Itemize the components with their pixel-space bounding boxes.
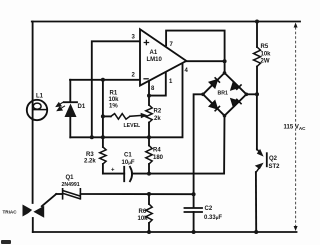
bridge diode bottom-right	[231, 99, 239, 107]
wire left vertical (lamp branch)	[32, 22, 34, 204]
wire bottom rail	[33, 231, 297, 233]
svg-text:R5: R5	[261, 44, 269, 50]
svg-text:8: 8	[151, 86, 155, 92]
resistor R1 (level pot)	[103, 115, 111, 117]
115 VAC dimension line	[295, 27, 297, 227]
D1 light arrows	[56, 102, 65, 111]
capacitor C1	[123, 167, 125, 181]
Q2 arrowheads	[257, 149, 264, 157]
resistor R3	[100, 147, 106, 164]
svg-text:L1: L1	[36, 94, 44, 100]
svg-text:2: 2	[132, 73, 136, 79]
bridge diode top-right	[231, 82, 239, 90]
wire triac to bottom rail	[32, 218, 34, 232]
bridge BR1 outline	[203, 73, 246, 116]
svg-text:A1: A1	[150, 50, 158, 56]
svg-text:1: 1	[169, 79, 173, 85]
svg-text:ST2: ST2	[269, 164, 281, 170]
svg-text:2k: 2k	[154, 116, 161, 122]
bridge diode bottom-left	[210, 101, 218, 109]
resistor R2	[148, 81, 150, 105]
svg-text:C1: C1	[124, 153, 132, 159]
wire output to node	[186, 60, 224, 62]
wire bridge right to R5/Q2 column	[246, 93, 257, 95]
capacitor C2	[185, 207, 203, 209]
resistor R5	[256, 22, 258, 48]
sbs Q1 leads	[56, 193, 62, 195]
svg-text:LM10: LM10	[147, 57, 163, 63]
svg-text:Q2: Q2	[269, 156, 278, 162]
svg-text:R2: R2	[154, 109, 162, 115]
svg-text:D1: D1	[78, 104, 86, 110]
bridge diode top-left	[210, 77, 242, 111]
wire feedback rail y137	[70, 63, 182, 137]
lamp L1	[27, 100, 47, 120]
op-amp A1 LM10	[140, 29, 186, 85]
svg-text:1%: 1%	[109, 104, 118, 110]
caption smudge bottom-left	[1, 240, 11, 244]
svg-text:180: 180	[153, 155, 164, 161]
R1 wiper arrowhead	[141, 113, 148, 118]
svg-text:R4: R4	[153, 148, 161, 154]
svg-text:10k: 10k	[261, 52, 272, 58]
svg-text:2.2k: 2.2k	[84, 159, 96, 165]
triac triangles	[23, 205, 34, 217]
svg-text:2N4991: 2N4991	[62, 182, 80, 188]
resistor R4	[148, 137, 150, 145]
wire Q1 line	[80, 193, 193, 195]
node x103 vertical	[102, 80, 104, 147]
svg-text:R1: R1	[110, 91, 118, 97]
pin7 feedback loop	[166, 31, 225, 73]
svg-text:3: 3	[132, 35, 136, 41]
svg-text:C2: C2	[205, 206, 213, 212]
resistor R6	[148, 194, 150, 204]
wire top rail	[32, 21, 300, 23]
svg-text:R3: R3	[86, 152, 94, 158]
svg-text:4: 4	[185, 68, 189, 74]
trigger Q2 ST2	[256, 94, 258, 149]
wire pin2 line	[70, 79, 140, 81]
svg-text:BR1: BR1	[218, 91, 228, 97]
svg-text:R6: R6	[139, 209, 147, 215]
svg-text:7: 7	[170, 42, 174, 48]
triac	[42, 194, 56, 206]
svg-text:10µF: 10µF	[122, 160, 135, 166]
svg-text:10k: 10k	[138, 216, 149, 222]
svg-text:2W: 2W	[261, 59, 270, 65]
svg-text:+: +	[111, 168, 115, 174]
diode D1 triangle	[65, 104, 77, 118]
svg-text:0.33µF: 0.33µF	[204, 215, 222, 221]
svg-text:115 VAC: 115 VAC	[284, 125, 307, 132]
wire pin1 to pin8	[149, 72, 166, 95]
svg-text:Q1: Q1	[66, 175, 75, 181]
svg-text:TRIAC: TRIAC	[3, 210, 18, 215]
opamp +/-	[143, 40, 149, 79]
svg-text:LEVEL: LEVEL	[124, 123, 142, 129]
diode D1	[69, 80, 71, 102]
wire bridge bottom to C1 line	[132, 116, 225, 174]
wire pin3 line	[92, 41, 140, 137]
wire bridge left to C2 column	[194, 94, 203, 207]
svg-text:10k: 10k	[109, 97, 120, 103]
